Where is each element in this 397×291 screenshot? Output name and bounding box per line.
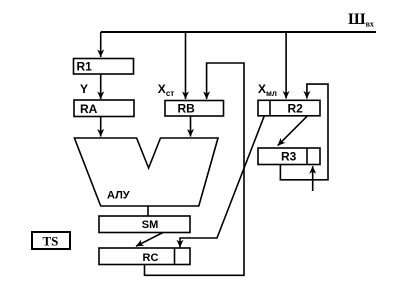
RC internal divider	[174, 248, 176, 265]
wire bus to RB	[185, 32, 187, 99]
trigger TS box	[32, 232, 70, 249]
wire R1 to RA	[100, 74, 102, 99]
wire feedback RC to RB (right loop)	[145, 63, 245, 275]
register RB	[165, 101, 224, 117]
svg-text:RC: RC	[143, 252, 159, 264]
register RA	[74, 100, 134, 117]
R3 internal divider	[306, 148, 308, 165]
wire R2 to R3 (diagonal)	[278, 116, 308, 146]
register R2	[258, 100, 320, 116]
bus Ш_вх (input bus, top horizontal)	[101, 31, 376, 33]
register R3	[258, 148, 320, 165]
svg-text:АЛУ: АЛУ	[107, 190, 130, 202]
register R1	[74, 59, 134, 75]
wire ALU to SM	[147, 206, 149, 216]
svg-text:Xмл: Xмл	[258, 82, 277, 98]
svg-text:R1: R1	[77, 60, 93, 74]
wire RB to ALU	[190, 116, 192, 137]
svg-text:RA: RA	[80, 102, 98, 116]
wire RA to ALU	[100, 117, 102, 137]
svg-text:Y: Y	[80, 82, 88, 96]
register SM	[99, 216, 190, 233]
svg-text:Xст: Xст	[158, 82, 174, 98]
svg-text:R3: R3	[281, 150, 297, 164]
R2 internal divider	[269, 100, 271, 116]
op block АЛУ (ALU)	[74, 138, 218, 206]
wire bus to R1	[100, 32, 102, 57]
wire input carry to R3	[312, 166, 314, 191]
svg-text:TS: TS	[43, 234, 59, 249]
wire R2 low cell to RC (long diagonal)	[180, 116, 264, 248]
svg-text:R2: R2	[288, 102, 304, 116]
wire bus to R2	[285, 32, 287, 99]
svg-text:Швх: Швх	[348, 11, 374, 29]
wire SM to RC (diagonal)	[136, 233, 163, 247]
svg-text:SM: SM	[142, 219, 159, 231]
svg-text:RB: RB	[178, 102, 196, 116]
wire feedback R3 to R2	[280, 84, 328, 180]
register RC	[99, 248, 190, 265]
